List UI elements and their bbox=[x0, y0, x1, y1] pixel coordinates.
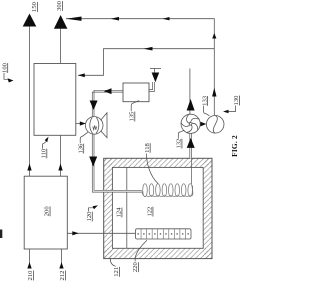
svg-text:136: 136 bbox=[77, 143, 84, 154]
svg-text:FIG. 2: FIG. 2 bbox=[230, 135, 239, 157]
svg-text:100: 100 bbox=[1, 62, 8, 73]
svg-text:220: 220 bbox=[132, 262, 139, 273]
svg-text:210: 210 bbox=[27, 270, 34, 281]
svg-text:212: 212 bbox=[59, 271, 66, 281]
svg-text:300: 300 bbox=[56, 0, 63, 11]
svg-text:122: 122 bbox=[147, 207, 154, 217]
svg-text:121: 121 bbox=[113, 267, 120, 277]
svg-text:120: 120 bbox=[86, 211, 93, 222]
svg-text:133: 133 bbox=[201, 95, 208, 106]
svg-text:124: 124 bbox=[116, 207, 123, 218]
svg-text:150: 150 bbox=[31, 1, 38, 12]
svg-text:132: 132 bbox=[176, 139, 183, 149]
svg-text:130: 130 bbox=[233, 95, 240, 106]
svg-text:118: 118 bbox=[144, 142, 151, 152]
svg-text:110: 110 bbox=[41, 148, 48, 158]
svg-text:135: 135 bbox=[129, 111, 136, 122]
svg-text:200: 200 bbox=[44, 206, 51, 217]
